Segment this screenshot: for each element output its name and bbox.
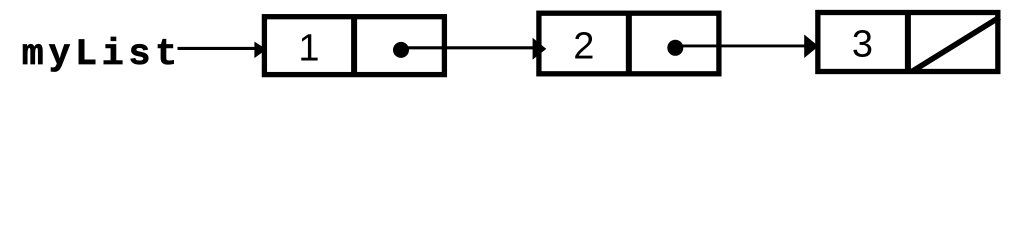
svg-text:myList: myList	[22, 34, 177, 75]
svg-text:1: 1	[298, 28, 319, 70]
arrowhead into node 2	[533, 38, 547, 60]
node 2 divider	[626, 11, 632, 74]
node 1 box	[264, 17, 444, 75]
svg-text:3: 3	[852, 24, 873, 66]
arrowhead into node 3	[804, 35, 818, 59]
node 3 box	[818, 13, 998, 72]
wire arrow from node 1 to node 2	[401, 46, 534, 49]
null slash in node 3 pointer cell	[912, 17, 1000, 72]
node 2 pointer dot	[667, 40, 683, 56]
node 2 box	[539, 13, 719, 74]
node 1 divider	[351, 15, 357, 78]
svg-text:2: 2	[573, 26, 594, 68]
wire arrow from node 2 to node 3	[673, 44, 806, 47]
node 3 divider	[905, 10, 911, 72]
arrowhead into node 1	[254, 42, 266, 59]
wire arrow from myList to node 1	[178, 47, 259, 50]
node 1 pointer dot	[393, 42, 409, 58]
